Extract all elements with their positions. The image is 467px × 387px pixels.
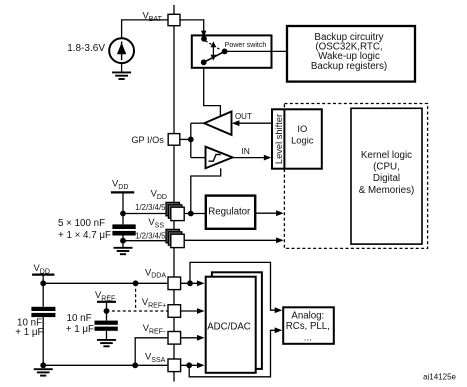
svg-text:IO: IO (297, 123, 307, 134)
node VREF- tap (132, 362, 138, 368)
wire: VBAT top stub (173, 5, 175, 14)
wire: main bus VDD stack to VSS stack (173, 221, 175, 230)
wire: VDD pin to regulator (184, 213, 206, 215)
capacitor 5x100nF+4.7uF (112, 224, 135, 229)
wire: power switch to backup circuitry (225, 50, 287, 52)
ground (bottom left) (34, 368, 53, 370)
svg-text:1.8-3.6V: 1.8-3.6V (67, 43, 105, 54)
wire: main bus VBAT to GPIO (173, 26, 175, 134)
svg-text:Logic: Logic (291, 135, 314, 146)
svg-text:Backup registers): Backup registers) (311, 61, 387, 72)
node VDD pin junction (188, 211, 194, 217)
wire: VDDA pin to ADC (180, 282, 203, 284)
arrow into level shifter (264, 155, 272, 161)
wire: cap to VSS row (122, 236, 124, 248)
arrow into power switch (201, 31, 206, 38)
pin VREF+ (square) (168, 305, 181, 318)
node GPIO junction (188, 137, 194, 143)
svg-text:OUT: OUT (235, 112, 252, 121)
wire dashed: VREF to VREF+ pin (107, 310, 169, 312)
capacitor 10nF+1uF (VREF) (95, 321, 118, 325)
wire: to VSS pins (123, 240, 171, 242)
svg-text:1/2/3/4/5: 1/2/3/4/5 (135, 203, 166, 212)
power switch toggle double arrow (212, 45, 214, 57)
svg-text:ADC/DAC: ADC/DAC (207, 321, 251, 332)
level shifter divider (283, 109, 285, 168)
pin VSS stack (166, 229, 179, 242)
pin VDDA (square) (168, 277, 181, 290)
node VSSA pin junction (186, 362, 192, 368)
ground (under VREF cap) (97, 339, 116, 341)
level shifter + IO logic box (272, 109, 322, 168)
wire: level shifter to OUT buffer (238, 122, 272, 124)
svg-text:+ 1 μF: + 1 μF (66, 324, 94, 335)
ADC/DAC front box (206, 277, 256, 373)
svg-text:IN: IN (241, 146, 249, 156)
arrow VDDA into analog block (275, 307, 283, 313)
arrow VREF- into ADC (197, 335, 205, 341)
rail tick VDD (111, 191, 134, 193)
wire: VREF- pin to ADC (180, 337, 203, 339)
wire: cap to ground (106, 331, 108, 340)
svg-text:...: ... (304, 333, 312, 344)
arrow regulator into kernel domain (276, 210, 284, 216)
wire: main bus VREF- to VSSA (173, 344, 175, 359)
buffer OUT (triangle) (204, 112, 231, 135)
svg-text:+ 1 μF: + 1 μF (15, 327, 43, 338)
svg-text:Analog:: Analog: (291, 311, 324, 322)
wire: source to ground (121, 63, 123, 72)
wire: regulator to kernel domain (255, 212, 282, 214)
node VSS rail junction (120, 238, 126, 244)
power switch box (192, 35, 272, 67)
regulator box (206, 196, 255, 229)
svg-text:Kernel logic: Kernel logic (361, 150, 412, 161)
capacitor 10nF+1uF (VDDA) (31, 307, 55, 311)
power switch dashed alternate position (205, 41, 220, 50)
node VREF junction (104, 308, 110, 314)
wire: VBAT pin to power switch (180, 20, 204, 33)
schmitt symbol (209, 155, 221, 162)
wire: VSSA to VREF- pin (135, 338, 168, 366)
arrow VSSA into analog block (275, 327, 283, 333)
wire: to OUT buffer output (191, 122, 205, 124)
wire: VSS pin to kernel domain (184, 239, 282, 241)
svg-text:Level shifter: Level shifter (274, 114, 284, 164)
power switch common dot (222, 49, 228, 55)
wire: main bus VDDA to VREF+ (173, 290, 175, 305)
wire: VDD rail down (42, 275, 44, 307)
wire: cap down to VSSA row (42, 317, 44, 365)
kernel logic box (351, 108, 422, 244)
power switch top contact dot (201, 36, 207, 42)
wire: VDD rail to VDD pins (123, 213, 171, 215)
buffer IN schmitt (triangle) (206, 147, 233, 169)
ground (under 100nF caps) (114, 247, 133, 249)
wire: VBAT to current source (122, 20, 168, 38)
analog block box (283, 307, 334, 344)
power switch arm (204, 51, 225, 62)
wire: VDDA row (43, 282, 168, 284)
wire: VDDA wrap to analog block (190, 262, 280, 310)
arrow VREF+ into ADC (197, 308, 205, 314)
node VSSA rail junction (40, 362, 46, 368)
rail tick VREF (97, 301, 116, 303)
pin VSSA (square) (168, 359, 181, 372)
svg-text:ai14125e: ai14125e (423, 373, 456, 382)
svg-text:1/2/3/4/5: 1/2/3/4/5 (135, 231, 166, 240)
arrow VDDA into ADC (197, 280, 205, 286)
svg-text:Digital: Digital (373, 173, 400, 184)
wire: GPIO pin to junction (180, 138, 191, 140)
pin VBAT (square) (168, 14, 180, 25)
node VDDA pin junction (187, 280, 193, 286)
wire: VSSA pin to ADC (180, 364, 203, 366)
node VDDA rail junction (40, 280, 46, 286)
wire: junction to IN buffer input (191, 157, 206, 159)
wire: main bus bottom stub (173, 372, 175, 382)
svg-text:GP I/Os: GP I/Os (131, 135, 164, 145)
source V1 battery/current source circle (109, 38, 134, 63)
svg-text:Power switch: Power switch (225, 41, 267, 49)
wire: main bus VREF+ to VREF- (173, 317, 175, 331)
kernel dashed domain box (284, 104, 427, 249)
pin GP I/Os (square) (168, 134, 180, 146)
wire: VREF+ pin to ADC (180, 310, 203, 312)
node VDDA dashed tap (133, 280, 139, 286)
node VDD rail junction (120, 211, 126, 217)
svg-text:10 nF: 10 nF (67, 313, 92, 324)
ground (under source) (112, 71, 131, 73)
wire dashed: VDDA to VREF+ (135, 283, 137, 311)
arrow VSSA into ADC (197, 362, 205, 368)
source V1 arrow (121, 42, 123, 61)
wire: VDD rail down to cap (122, 192, 124, 224)
wire: power switch to OUT buffer supply (204, 68, 221, 117)
power switch bottom contact dot (201, 59, 207, 65)
svg-text:(CPU,: (CPU, (373, 162, 400, 173)
svg-text:Regulator: Regulator (208, 206, 251, 217)
wire: IN buffer to level shifter (233, 157, 265, 159)
svg-text:RCs, PLL,: RCs, PLL, (286, 321, 330, 332)
svg-text:5 × 100 nF: 5 × 100 nF (58, 218, 105, 229)
wire: main bus VSS stack to VDDA (173, 248, 175, 277)
arrow into OUT buffer (232, 120, 240, 126)
wire: junction vertical (190, 123, 192, 157)
wire: VREF down (106, 302, 108, 321)
backup circuitry box (287, 26, 415, 82)
wire: VSSA row (43, 364, 168, 366)
svg-text:+ 1 × 4.7 μF: + 1 × 4.7 μF (58, 230, 111, 241)
pin VDD stack (166, 202, 179, 215)
wire: main bus GPIO to VDD pins (173, 145, 175, 204)
pin VREF- (square) (168, 332, 181, 345)
svg-text:& Memories): & Memories) (359, 185, 415, 196)
wire: VDD row to IN buffer supply (191, 168, 221, 213)
wire: VSSA wrap to analog block (189, 330, 280, 377)
rail tick VDD analog (32, 274, 54, 276)
ADC/DAC back box (212, 272, 262, 369)
arrow VSS into kernel domain (276, 237, 284, 243)
